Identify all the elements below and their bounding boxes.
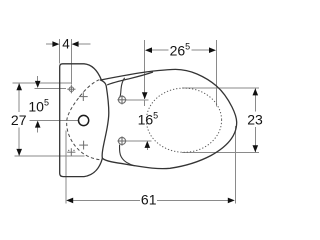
svg-text:165: 165 xyxy=(138,111,159,128)
svg-text:27: 27 xyxy=(11,112,27,128)
svg-text:265: 265 xyxy=(170,41,191,58)
svg-text:105: 105 xyxy=(28,97,49,114)
svg-text:23: 23 xyxy=(247,111,263,127)
svg-text:4: 4 xyxy=(62,36,70,51)
svg-text:61: 61 xyxy=(141,192,157,208)
